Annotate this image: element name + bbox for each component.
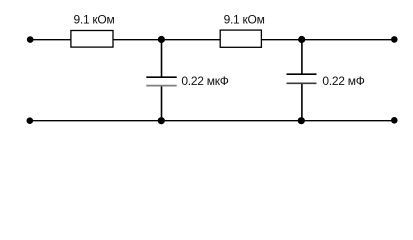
svg-text:0.22 мкФ: 0.22 мкФ [181,74,228,88]
resistor R2 [220,30,261,47]
capacitor C2 [287,74,317,83]
wire C1 bottom stub [161,86,163,121]
wire C2 top stub [301,40,303,75]
node terminal top-right [391,36,398,43]
node junction bottom-1 [158,117,165,124]
node terminal bottom-right [391,117,398,124]
svg-text:9.1 кОм: 9.1 кОм [74,13,115,27]
node junction top-2 [298,36,305,43]
resistor R1 [71,31,113,48]
wire top rail [30,39,394,41]
node junction bottom-2 [298,117,305,124]
wire C1 top stub [161,40,163,78]
node terminal bottom-left [27,117,34,124]
wire bottom rail [30,120,395,122]
capacitor C1 [146,77,176,85]
node junction top-1 [158,36,165,43]
svg-text:9.1 кОм: 9.1 кОм [224,13,265,27]
wire C2 bottom stub [301,83,303,120]
svg-text:0.22 мФ: 0.22 мФ [322,74,364,88]
node terminal top-left [27,36,34,43]
